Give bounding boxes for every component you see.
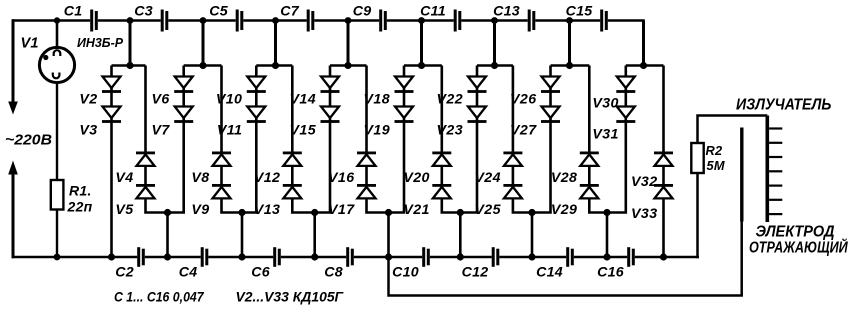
- diode V32: [654, 152, 673, 166]
- svg-text:С2: С2: [115, 265, 134, 281]
- junction stage 5 distribution node: [418, 62, 425, 69]
- svg-text:5М: 5М: [707, 158, 725, 173]
- junction diode chains join node 5: [457, 209, 464, 216]
- svg-text:ИЗЛУЧАТЕЛЬ: ИЗЛУЧАТЕЛЬ: [736, 97, 831, 114]
- svg-text:V15: V15: [290, 123, 317, 139]
- wire stage 5 distribution: [404, 64, 442, 67]
- junction bottom rail node 4: [385, 253, 392, 260]
- svg-text:ОТРАЖАЮЩИЙ: ОТРАЖАЮЩИЙ: [749, 237, 848, 257]
- wire stage 2 right diode chain: [222, 66, 243, 213]
- diode V27: [541, 107, 560, 123]
- wire lamp V1 to R1: [56, 83, 58, 181]
- junction top rail node, stage 2: [200, 17, 207, 24]
- capacitor С9: [379, 10, 387, 32]
- svg-text:V2: V2: [79, 92, 97, 108]
- wire bottom rail: [12, 256, 699, 259]
- svg-text:С6: С6: [251, 265, 270, 281]
- svg-text:V20: V20: [403, 170, 429, 186]
- diode V6: [174, 77, 193, 93]
- capacitor С11: [454, 10, 462, 32]
- svg-text:С16: С16: [597, 265, 624, 281]
- label R2 5М: [706, 143, 725, 173]
- capacitor С5: [236, 10, 244, 32]
- junction stage 4 distribution node: [344, 62, 351, 69]
- wire bottom rail right end up to R2: [696, 173, 699, 258]
- capacitor С15: [600, 10, 608, 32]
- junction V3 chain / bottom rail: [108, 253, 115, 260]
- svg-text:V32: V32: [631, 174, 657, 190]
- diode V21: [432, 184, 451, 198]
- svg-text:R1.: R1.: [69, 183, 92, 199]
- junction top rail node, stage 3: [272, 17, 279, 24]
- svg-text:С 1... С16 0,047: С 1... С16 0,047: [114, 290, 205, 306]
- wire join node 5 to bottom rail: [459, 213, 462, 258]
- junction V33 chain / bottom rail: [660, 253, 667, 260]
- svg-text:V22: V22: [437, 92, 463, 108]
- wire stage 8 left diode chain: [607, 66, 626, 213]
- capacitor С1: [90, 10, 98, 32]
- wire top rail drop, stage 2: [202, 21, 205, 66]
- wire top rail drop, stage 7: [568, 21, 571, 66]
- svg-text:V23: V23: [437, 123, 463, 139]
- wire left edge top segment: [12, 19, 15, 103]
- diode V10: [247, 77, 266, 93]
- junction lamp V1 / top rail: [54, 17, 60, 23]
- wire join node 1 to bottom rail: [166, 213, 169, 258]
- wire top rail drop, stage 5: [420, 21, 423, 66]
- wire stage 8 right diode chain: [662, 66, 665, 258]
- diode V8: [212, 152, 231, 166]
- AC input arrow (down): [8, 102, 18, 115]
- diode V5: [136, 184, 155, 198]
- svg-text:ЭЛЕКТРОД: ЭЛЕКТРОД: [756, 224, 835, 241]
- diode V3: [102, 107, 121, 123]
- svg-text:С4: С4: [179, 265, 198, 281]
- diode V29: [580, 184, 599, 198]
- wire stage 1 right diode chain: [146, 66, 168, 213]
- svg-text:V1: V1: [21, 36, 39, 52]
- diode V23: [468, 107, 487, 123]
- resistor R2: [691, 143, 703, 173]
- svg-text:С13: С13: [493, 4, 520, 20]
- svg-text:V27: V27: [510, 123, 537, 139]
- junction stage 8 distribution node: [640, 62, 647, 69]
- svg-text:V30: V30: [592, 96, 618, 112]
- svg-text:V33: V33: [631, 206, 657, 222]
- svg-text:С7: С7: [280, 4, 300, 20]
- diode V13: [283, 184, 302, 198]
- resistor R1: [51, 180, 64, 210]
- svg-text:22п: 22п: [67, 199, 93, 215]
- diode V7: [174, 107, 193, 123]
- junction bottom rail node 2: [238, 253, 245, 260]
- junction R1 / bottom rail: [54, 254, 61, 261]
- svg-text:С15: С15: [566, 4, 594, 20]
- svg-text:V6: V6: [152, 92, 170, 108]
- svg-text:С9: С9: [353, 4, 372, 20]
- junction bottom rail node 5: [457, 253, 464, 260]
- wire join node 7 to bottom rail: [606, 213, 609, 258]
- svg-text:V18: V18: [364, 92, 390, 108]
- junction bottom rail node 7: [603, 253, 610, 260]
- wire from top rail to lamp V1: [56, 21, 59, 50]
- capacitor С14: [566, 247, 574, 267]
- diode V25: [503, 184, 522, 198]
- diode V20: [432, 152, 451, 166]
- wire join node 6 to bottom rail: [531, 213, 534, 258]
- capacitor С13: [528, 10, 536, 32]
- wire stage 2 left diode chain: [168, 66, 184, 213]
- diode V15: [321, 107, 340, 123]
- diode V26: [541, 77, 560, 93]
- wire stage 2 distribution: [184, 64, 222, 67]
- wire stage 8 distribution: [626, 64, 664, 67]
- wire stage 3 left diode chain: [242, 66, 256, 213]
- diode V28: [580, 152, 599, 166]
- diode V9: [212, 184, 231, 198]
- wire stage 1 distribution: [112, 64, 146, 67]
- svg-text:V10: V10: [216, 92, 242, 108]
- junction stage 7 distribution node: [566, 62, 573, 69]
- wire top rail drop, stage 1: [129, 21, 132, 66]
- junction top rail node, stage 4: [345, 17, 352, 24]
- junction bottom rail node 3: [311, 253, 318, 260]
- wire join node 3 to bottom rail: [313, 213, 316, 258]
- wire R2 top to emitter: [698, 116, 768, 144]
- svg-text:V17: V17: [328, 202, 355, 218]
- junction top rail node, stage 1: [127, 17, 134, 24]
- capacitor С12: [492, 247, 500, 267]
- diode V17: [357, 184, 376, 198]
- junction diode chains join node 6: [528, 209, 535, 216]
- wire stage 4 right diode chain: [367, 66, 389, 213]
- diode V31: [616, 107, 635, 123]
- junction stage 6 distribution node: [491, 62, 498, 69]
- diode V12: [283, 152, 302, 166]
- wire stage 7 distribution: [551, 64, 590, 67]
- capacitor С8: [346, 247, 354, 267]
- capacitor С2: [137, 247, 145, 267]
- wire stage 1 left diode chain: [110, 66, 113, 258]
- emitter plate (излучатель): [766, 116, 770, 223]
- diode V30: [616, 77, 635, 93]
- junction diode chains join node 4: [385, 209, 392, 216]
- wire top rail end drop, stage 8: [642, 21, 645, 66]
- svg-text:V24: V24: [474, 170, 500, 186]
- capacitor С10: [422, 247, 430, 267]
- wire stage 4 distribution: [330, 64, 367, 67]
- svg-text:V8: V8: [191, 170, 209, 186]
- junction stage 1 distribution node: [126, 62, 133, 69]
- diode V14: [321, 77, 340, 93]
- wire stage 7 left diode chain: [532, 66, 551, 213]
- svg-text:~220В: ~220В: [5, 132, 52, 149]
- wire stage 7 right diode chain: [589, 66, 607, 213]
- junction diode chains join node 3: [311, 209, 318, 216]
- svg-text:С14: С14: [536, 265, 563, 281]
- wire stage 5 right diode chain: [442, 66, 461, 213]
- junction diode chains join node 1: [164, 209, 171, 216]
- svg-text:V5: V5: [115, 202, 134, 218]
- svg-text:С10: С10: [392, 265, 419, 281]
- wire stage 5 left diode chain: [389, 66, 405, 213]
- svg-text:С3: С3: [134, 4, 153, 20]
- diode V16: [357, 152, 376, 166]
- svg-text:С11: С11: [420, 4, 446, 20]
- svg-text:V4: V4: [115, 170, 133, 186]
- diode V19: [395, 107, 414, 123]
- wire top rail right corner drop: [642, 21, 645, 66]
- svg-text:С1: С1: [64, 4, 83, 20]
- svg-text:С12: С12: [462, 265, 489, 281]
- svg-text:R2: R2: [706, 143, 723, 158]
- junction bottom rail node 6: [528, 253, 535, 260]
- reflecting electrode plate: [740, 128, 743, 222]
- wire top rail drop, stage 3: [274, 21, 277, 66]
- junction diode chains join node 7: [603, 209, 610, 216]
- wire join node 4 to bottom rail: [387, 213, 390, 258]
- svg-text:V12: V12: [254, 170, 280, 186]
- wire stage 4 left diode chain: [315, 66, 330, 213]
- svg-text:С5: С5: [209, 4, 229, 20]
- svg-text:V9: V9: [191, 202, 209, 218]
- svg-text:V3: V3: [79, 123, 97, 139]
- capacitor С7: [307, 10, 315, 32]
- diode V18: [395, 77, 414, 93]
- wire stage 6 distribution: [477, 64, 513, 67]
- svg-text:V21: V21: [403, 202, 429, 218]
- svg-text:ИН3Б-Р: ИН3Б-Р: [77, 35, 123, 50]
- wire stage 6 right diode chain: [513, 66, 532, 213]
- junction top rail node, stage 7: [566, 17, 573, 24]
- capacitor С4: [201, 247, 209, 267]
- wire R1 to bottom rail: [56, 210, 58, 258]
- junction top rail node, stage 5: [418, 17, 425, 24]
- svg-text:V25: V25: [474, 202, 501, 218]
- wire reflecting electrode to bottom tap: [389, 221, 742, 296]
- emitter needle teeth: [769, 127, 782, 215]
- junction bottom rail node 1: [164, 253, 171, 260]
- svg-text:V26: V26: [510, 92, 536, 108]
- wire stage 3 distribution: [256, 64, 292, 67]
- capacitor С16: [627, 247, 635, 267]
- junction diode chains join node 2: [238, 209, 245, 216]
- AC input arrow (up): [8, 161, 18, 259]
- diode V11: [247, 107, 266, 123]
- junction stage 3 distribution node: [272, 62, 279, 69]
- svg-text:V16: V16: [328, 170, 354, 186]
- diode V33: [654, 184, 673, 198]
- diode V2: [102, 77, 121, 93]
- capacitor С6: [273, 247, 281, 267]
- svg-text:V28: V28: [551, 170, 577, 186]
- wire top rail drop, stage 6: [493, 21, 496, 66]
- junction stage 2 distribution node: [199, 62, 206, 69]
- svg-text:V31: V31: [592, 127, 618, 143]
- capacitor С3: [161, 10, 169, 32]
- wire stage 6 left diode chain: [460, 66, 477, 213]
- svg-text:V11: V11: [217, 123, 242, 139]
- wire join node 2 to bottom rail: [241, 213, 244, 258]
- label R1 22п: [67, 183, 93, 215]
- svg-text:С8: С8: [324, 265, 343, 281]
- svg-text:V7: V7: [152, 123, 171, 139]
- junction top rail node, stage 6: [491, 17, 498, 24]
- diode V4: [136, 152, 155, 166]
- svg-text:V14: V14: [290, 92, 316, 108]
- neon lamp V1: [39, 47, 74, 82]
- svg-text:V19: V19: [364, 123, 390, 139]
- wire top rail drop, stage 4: [347, 21, 350, 66]
- svg-text:V29: V29: [551, 202, 577, 218]
- svg-text:V2...V33 КД105Г: V2...V33 КД105Г: [236, 290, 345, 306]
- diode V24: [503, 152, 522, 166]
- svg-text:V13: V13: [254, 202, 280, 218]
- wire stage 3 right diode chain: [292, 66, 314, 213]
- wire top rail: [12, 19, 645, 22]
- diode V22: [468, 77, 487, 93]
